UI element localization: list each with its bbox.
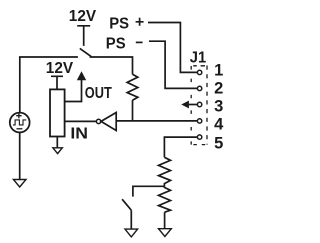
wire box IN to bubble [65, 120, 97, 122]
pin 3 arrow out [189, 104, 198, 106]
supply +12V second bar symbol [51, 76, 63, 89]
wire OUT tap [65, 80, 82, 102]
pin 4 circle [197, 119, 201, 123]
pin 5 circle [197, 135, 201, 139]
wire pin 5 to divider [164, 137, 197, 157]
delay line box [50, 89, 65, 136]
resistor R1 [127, 74, 138, 100]
svg-text:OUT: OUT [85, 85, 112, 102]
resistor R2 [159, 157, 171, 186]
ground arrow under box [53, 148, 62, 154]
ground arrow under switch [125, 229, 138, 237]
wire signal line to pin 4 [116, 120, 197, 122]
wire switch to ground [130, 210, 132, 230]
svg-text:3: 3 [214, 98, 223, 116]
OUT arrow head [77, 71, 86, 80]
svg-text:J1: J1 [190, 50, 206, 67]
connector J1 dashed box [206, 66, 208, 145]
svg-text:PS: PS [106, 36, 126, 53]
svg-text:4: 4 [214, 116, 224, 134]
wire divider tap [133, 186, 165, 196]
ground arrow left [13, 180, 26, 188]
svg-text:IN: IN [70, 125, 88, 142]
inverter bubble [96, 119, 100, 123]
wire PS- to pin 2 [149, 41, 197, 88]
svg-text:12V: 12V [69, 8, 97, 25]
wire box bottom to ground [56, 137, 58, 150]
wire R1 to node [132, 100, 134, 121]
svg-text:1: 1 [214, 62, 223, 80]
pin 2 circle [197, 86, 201, 90]
wire R3 to ground [164, 212, 166, 230]
svg-text:PS: PS [109, 16, 129, 33]
inverter triangle U1 [101, 113, 116, 131]
resistor R3 [159, 186, 171, 212]
supply +12V top bar symbol [77, 26, 90, 46]
switch S1 blade [80, 48, 91, 56]
wire rail right segment [90, 57, 133, 74]
wire source to ground [19, 132, 21, 181]
wire rail left segment [20, 57, 78, 113]
svg-text:5: 5 [214, 134, 223, 152]
pulse generator source [10, 113, 30, 133]
wire PS+ to pin 1 [148, 23, 197, 73]
svg-text:12V: 12V [46, 60, 74, 77]
svg-text:2: 2 [214, 80, 223, 98]
ground arrow under R3 [159, 229, 172, 237]
pin 1 circle [197, 70, 201, 74]
pin 3 circle [197, 102, 201, 106]
switch S2 blade [122, 199, 131, 210]
